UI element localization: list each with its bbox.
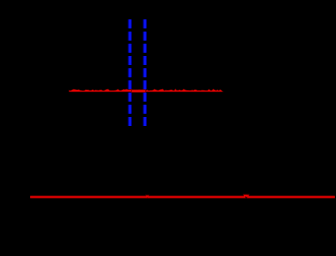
- blue dashed vertical line left halo: [128, 19, 132, 128]
- top red noisy trace: [69, 89, 223, 92]
- top red bright fit segment: [132, 90, 146, 92]
- bottom red line inner halo: [30, 196, 335, 197]
- blue dashed vertical line right: [144, 19, 146, 128]
- bottom red line outer halo: [30, 196, 335, 197]
- blue dashed vertical line left: [129, 19, 131, 128]
- blue dashed vertical line right halo: [143, 19, 147, 128]
- bottom red line core: [30, 196, 335, 197]
